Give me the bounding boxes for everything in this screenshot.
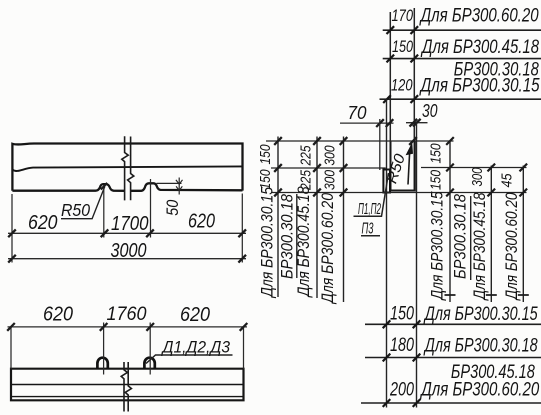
svg-text:620: 620: [43, 304, 73, 326]
right: top rows verticals: [390, 8, 414, 193]
svg-text:Для БР300.60.20: Для БР300.60.20: [319, 192, 337, 304]
bottom rows ticks: [383, 320, 421, 406]
svg-text:Для БР300.30.15: Для БР300.30.15: [259, 186, 277, 298]
plan inner line 2: [11, 396, 244, 398]
right: top dim rows rules: [380, 30, 541, 99]
plan dim ticks: [7, 323, 247, 331]
section: loop recess R50 outline: [391, 142, 415, 191]
right dim columns verticals: [450, 141, 523, 302]
svg-text:1700: 1700: [111, 213, 149, 235]
svg-text:620: 620: [28, 212, 58, 234]
svg-text:Для БР300.45.18: Для БР300.45.18: [471, 192, 489, 301]
svg-text:Для БР300.30.18: Для БР300.30.18: [423, 336, 538, 357]
svg-text:150: 150: [257, 169, 274, 190]
svg-text:Для БР300.45.18: Для БР300.45.18: [420, 37, 539, 58]
svg-text:150: 150: [428, 143, 445, 164]
section outer verticals: [387, 99, 417, 407]
extension lines side view: [12, 179, 242, 263]
svg-text:180: 180: [390, 335, 414, 356]
svg-text:70: 70: [348, 102, 368, 123]
svg-text:150: 150: [428, 169, 445, 190]
left dim columns verticals: [278, 137, 344, 303]
plan view outline: [11, 369, 244, 401]
svg-text:3000: 3000: [111, 240, 147, 262]
svg-text:Для БР300.30.15: Для БР300.30.15: [429, 191, 447, 301]
svg-text:Д1,Д2,Д3: Д1,Д2,Д3: [161, 338, 231, 357]
svg-text:620: 620: [180, 304, 210, 326]
svg-text:170: 170: [392, 6, 414, 25]
svg-text:120: 120: [391, 76, 413, 95]
svg-text:Для БР300.30.15: Для БР300.30.15: [423, 304, 538, 325]
svg-text:300: 300: [469, 167, 486, 186]
mid horizontal line middle: [271, 167, 527, 170]
dimension line 620-1700-620: [8, 232, 246, 234]
svg-text:1760: 1760: [107, 303, 147, 325]
dim ticks side view: [8, 229, 246, 262]
right: top rows ticks: [383, 26, 418, 103]
svg-text:БР300.30.18: БР300.30.18: [452, 193, 470, 279]
svg-text:50: 50: [163, 199, 182, 215]
lifting loop left (plan): [97, 358, 107, 369]
tick at recess crossing: [101, 183, 107, 190]
svg-text:45: 45: [499, 173, 516, 188]
side view outline: [12, 144, 242, 191]
svg-text:Для БР300.30.15: Для БР300.30.15: [419, 76, 540, 97]
svg-text:Для БР300.45.18: Для БР300.45.18: [295, 186, 313, 298]
dim 50 recess depth: [157, 178, 183, 195]
recess leader arrowhead: [406, 142, 413, 155]
svg-text:30: 30: [422, 100, 438, 121]
svg-text:150: 150: [390, 303, 414, 324]
lifting loop (end view): [383, 170, 390, 193]
dimension line 3000: [8, 258, 246, 260]
right columns ticks: [446, 137, 527, 196]
right label bottom serifs: [445, 294, 529, 296]
svg-text:150: 150: [392, 37, 413, 56]
svg-text:Для БР300.60.20: Для БР300.60.20: [419, 6, 539, 27]
plan extension lines: [11, 323, 244, 375]
svg-text:300: 300: [322, 145, 339, 166]
bottom dim rows rules: [361, 324, 541, 403]
mid horizontal line top (section top): [266, 140, 454, 142]
svg-text:150: 150: [257, 144, 274, 165]
svg-text:Для БР300.60.20: Для БР300.60.20: [420, 380, 540, 401]
plan inner line 1: [11, 384, 244, 386]
plan break line: [121, 362, 131, 412]
svg-text:300: 300: [322, 169, 339, 190]
svg-text:R50: R50: [61, 200, 90, 220]
svg-text:620: 620: [188, 211, 215, 233]
left columns ticks: [274, 137, 417, 196]
side view bottom profile with loop recesses: [12, 183, 242, 191]
svg-text:П3: П3: [362, 221, 374, 238]
svg-text:БР300.30.18: БР300.30.18: [279, 193, 297, 279]
mid horizontal line bottom: [271, 192, 527, 194]
svg-text:225: 225: [298, 145, 315, 166]
svg-text:Для БР300.60.20: Для БР300.60.20: [503, 192, 521, 301]
plan dimension line 620-1760-620: [8, 326, 248, 328]
lifting loop right (plan): [144, 358, 154, 369]
svg-text:П1,П2: П1,П2: [358, 201, 381, 218]
dim 70 extension vertical: [379, 119, 381, 170]
side view break line: [122, 136, 134, 200]
side view chamfer line: [12, 166, 242, 171]
svg-text:200: 200: [389, 379, 414, 400]
